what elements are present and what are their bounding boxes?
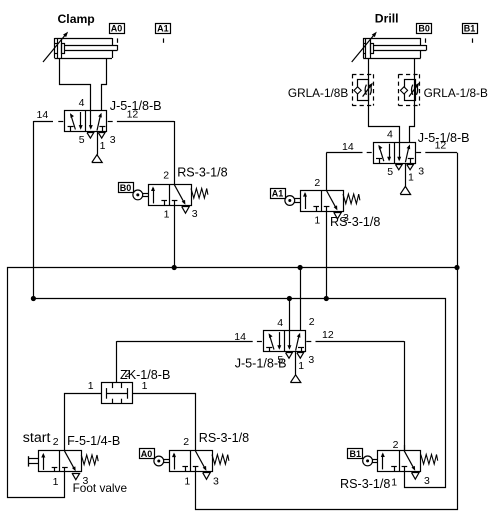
pilot wire memory valve port 14 from ZK output [117, 341, 262, 383]
svg-text:1: 1 [100, 140, 106, 152]
pilot wire drill valve port 14 from A1 output [326, 153, 371, 191]
wire B0 port 1 to bus 1 [174, 205, 176, 267]
svg-text:2: 2 [53, 436, 59, 448]
sensor tag B1 [348, 449, 363, 460]
svg-text:1: 1 [53, 476, 59, 488]
pilot wire drill valve port 12 from bus 1 [416, 153, 457, 268]
svg-text:3: 3 [213, 476, 219, 488]
svg-text:2: 2 [163, 170, 169, 182]
bus 2 (retract-phase line from memory valve port 4) [33, 299, 445, 488]
svg-text:12: 12 [435, 140, 447, 152]
svg-text:B1: B1 [464, 24, 476, 34]
roller actuator A0 [154, 456, 169, 466]
5/2-way double pilot valve J-5-1/8-B (clamp) [65, 97, 116, 163]
svg-text:A0: A0 [111, 24, 123, 34]
cylinder Clamp (1A) (double-acting, adjustable cushioning) [43, 32, 118, 62]
svg-text:start: start [23, 430, 51, 446]
svg-text:14: 14 [342, 141, 354, 153]
position marker A1 [156, 24, 171, 43]
svg-text:GRLA-1/8B: GRLA-1/8B [288, 86, 348, 100]
sensor tag A0 [140, 449, 155, 460]
position marker A0 [110, 24, 125, 43]
svg-text:4: 4 [387, 129, 393, 141]
3/2-way valve body at (148.0,184.4) [149, 184, 208, 213]
bus 1 (extend-phase line from memory valve port 2) [8, 268, 458, 498]
roller actuator B0 [133, 190, 148, 200]
svg-text:3: 3 [424, 475, 430, 487]
svg-text:1: 1 [314, 215, 320, 227]
svg-text:1: 1 [184, 476, 190, 488]
junction B0 supply on bus 1 [172, 265, 177, 270]
svg-text:3: 3 [192, 208, 198, 220]
wire drill rod-end through GRLA to valve port 2 [410, 58, 415, 142]
svg-text:A0: A0 [141, 449, 153, 459]
svg-text:3: 3 [83, 475, 89, 487]
two-pressure valve ZK-1/8-B [102, 383, 133, 405]
svg-text:RS-3-1/8: RS-3-1/8 [330, 215, 380, 229]
svg-text:B0: B0 [120, 183, 132, 193]
svg-text:1: 1 [391, 476, 397, 488]
svg-text:14: 14 [37, 109, 49, 121]
3/2-way valve body at (300.0,190.0) [301, 190, 360, 219]
one-way flow control valve GRLA-1/8B [288, 74, 374, 105]
3/2-way valve body at (38.3,450.9) [39, 451, 99, 480]
position marker B1 [463, 24, 478, 43]
junction A1 supply on bus 2 [324, 296, 329, 301]
svg-text:3: 3 [110, 134, 116, 146]
svg-text:J-5-1/8-B: J-5-1/8-B [235, 356, 287, 370]
one-way flow control valve GRLA-1/8-B [399, 74, 488, 105]
junction memory port 2 on bus 1 [298, 265, 303, 270]
svg-text:12: 12 [322, 329, 334, 341]
svg-text:B0: B0 [418, 24, 430, 34]
3/2-way valve body at (377.8,450.4) [378, 450, 438, 479]
svg-text:Clamp: Clamp [58, 12, 95, 26]
svg-text:GRLA-1/8-B: GRLA-1/8-B [424, 86, 488, 100]
sensor tag B0 [119, 183, 134, 194]
svg-text:A1: A1 [272, 189, 284, 199]
wire clamp cap-end to valve port 4 [60, 58, 91, 111]
position marker B0 [417, 24, 432, 43]
cylinder Drill (2A) (double-acting, adjustable cushioning) [352, 32, 427, 62]
wire A0 port 2 to ZK right input [133, 394, 196, 451]
pilot wire memory valve port 12 from B1 output [306, 341, 404, 450]
roller actuator A1 [285, 196, 300, 206]
3/2-way valve body at (169.0,450.5) [170, 451, 229, 480]
svg-text:RS-3-1/8: RS-3-1/8 [177, 165, 227, 179]
svg-text:4: 4 [277, 317, 283, 329]
svg-text:4: 4 [79, 97, 85, 109]
svg-text:RS-3-1/8: RS-3-1/8 [340, 477, 390, 491]
pilot wire clamp valve port 14 from signal bus [33, 121, 63, 299]
svg-text:3: 3 [418, 166, 424, 178]
svg-text:1: 1 [298, 360, 304, 372]
svg-text:1: 1 [142, 380, 148, 392]
svg-text:Foot valve: Foot valve [73, 481, 128, 495]
junction drill pilot 12 on bus 1 [454, 265, 459, 270]
wire drill cap-end through GRLA to valve port 4 [369, 58, 400, 142]
pilot wire clamp valve port 12 from B0 output [108, 121, 175, 184]
svg-text:2: 2 [183, 436, 189, 448]
wire memory valve port 2 to bus 1 [300, 268, 302, 331]
junction clamp pilot 14 on bus 2 [31, 296, 36, 301]
sensor tag A1 [271, 189, 286, 199]
wire memory valve port 4 to bus 2 [289, 299, 291, 331]
svg-text:1: 1 [88, 380, 94, 392]
svg-text:5: 5 [79, 134, 85, 146]
wire B1 port 2 to memory pilot 12 [404, 445, 406, 450]
svg-text:F-5-1/4-B: F-5-1/4-B [67, 434, 120, 448]
roller actuator B1 [363, 456, 378, 466]
svg-text:12: 12 [127, 109, 139, 121]
5/2-way double pilot valve J-5-1/8-B (drill) [374, 129, 425, 195]
5/2-way double pilot valve J-5-1/8-B (memory) [264, 317, 315, 383]
svg-text:5: 5 [387, 166, 393, 178]
svg-text:RS-3-1/8: RS-3-1/8 [199, 431, 249, 445]
wire clamp rod-end to valve port 2 [102, 58, 107, 111]
svg-text:Drill: Drill [375, 12, 399, 26]
svg-text:3: 3 [308, 354, 314, 366]
svg-text:A1: A1 [157, 24, 169, 34]
foot pedal actuator [28, 456, 38, 466]
wire A1 port 1 to bus 2 [326, 211, 328, 299]
svg-text:1: 1 [164, 208, 170, 220]
bus 1 right branch down to A0 supply [196, 268, 458, 510]
svg-text:2: 2 [314, 177, 320, 189]
junction memory port 4 on bus 2 [287, 296, 292, 301]
svg-text:3: 3 [343, 212, 349, 224]
svg-text:2: 2 [393, 439, 399, 451]
wire foot valve port 2 to ZK left input [65, 394, 102, 451]
svg-text:2: 2 [125, 368, 131, 380]
svg-text:1: 1 [408, 172, 414, 184]
svg-text:B1: B1 [350, 449, 362, 459]
svg-text:2: 2 [309, 316, 315, 328]
